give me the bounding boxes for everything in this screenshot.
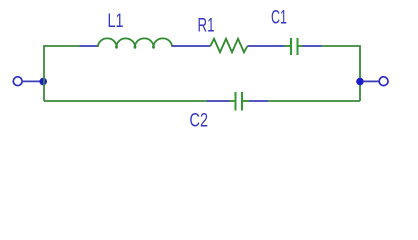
capacitor C1 bbox=[285, 38, 322, 55]
label L1 bbox=[108, 10, 124, 32]
terminal (left port) bbox=[13, 77, 22, 86]
wire bbox=[363, 80, 379, 82]
junction dot (left) bbox=[39, 78, 47, 86]
wire bbox=[22, 80, 41, 82]
svg-text:R1: R1 bbox=[198, 15, 215, 37]
svg-text:C2: C2 bbox=[190, 110, 209, 132]
junction dot (right) bbox=[356, 78, 364, 86]
inductor L1 bbox=[80, 38, 211, 48]
wire bbox=[322, 46, 361, 101]
wire bbox=[44, 46, 80, 101]
svg-text:C1: C1 bbox=[271, 7, 287, 29]
svg-text:L1: L1 bbox=[108, 10, 124, 32]
label R1 bbox=[198, 15, 215, 37]
label C1 bbox=[271, 7, 287, 29]
label C2 bbox=[190, 110, 209, 132]
wire bbox=[44, 100, 207, 102]
capacitor C2 bbox=[207, 92, 268, 111]
resistor R1 bbox=[211, 39, 285, 53]
wire bbox=[268, 100, 360, 102]
terminal (right port) bbox=[379, 77, 388, 86]
